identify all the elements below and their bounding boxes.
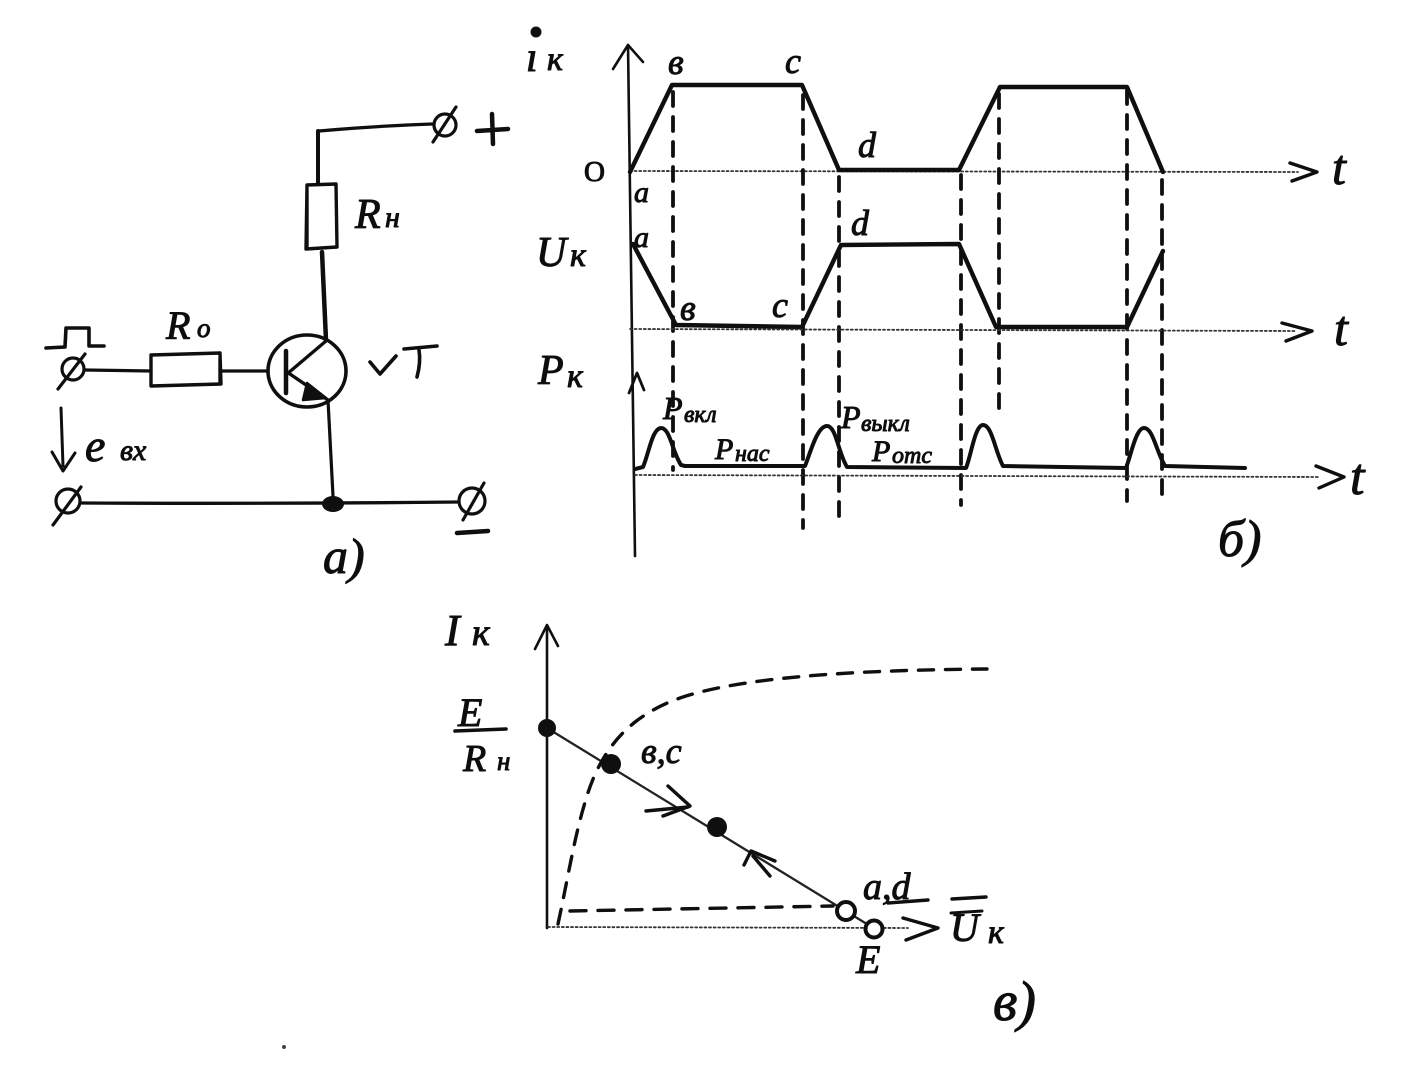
point mid <box>707 817 727 837</box>
svg-text:t: t <box>1332 139 1347 195</box>
small caret on Pk axis <box>629 373 644 393</box>
svg-text:б): б) <box>1218 511 1261 568</box>
load line <box>547 728 875 929</box>
emitter arrowhead <box>303 383 326 400</box>
wire: input terminal to Ro <box>85 370 151 371</box>
Uk waveform <box>633 244 1163 327</box>
label VT <box>370 356 396 374</box>
dashed vline b <box>671 92 675 470</box>
label Uk with bar <box>951 911 982 913</box>
svg-text:в: в <box>680 288 696 328</box>
transistor base bar <box>284 351 289 393</box>
svg-text:нас: нас <box>735 441 770 467</box>
svg-text:н: н <box>385 201 400 234</box>
svg-text:Е: Е <box>457 690 482 735</box>
svg-text:Е: Е <box>855 937 880 982</box>
dashed vline g2 <box>1125 90 1129 501</box>
svg-text:d: d <box>851 203 870 243</box>
wire: rail down to Rn <box>316 131 320 184</box>
svg-text:к: к <box>567 358 584 395</box>
diagram y-axis (shared) <box>628 45 635 556</box>
resistor Ro <box>151 353 221 386</box>
svg-text:отс: отс <box>892 443 932 469</box>
transistor VT body <box>268 335 346 407</box>
svg-text:к: к <box>570 237 587 274</box>
dashed vline f2 <box>997 94 1001 412</box>
svg-text:в: в <box>668 42 684 82</box>
terminal: bottom right <box>459 488 485 514</box>
stray dot <box>282 1045 286 1049</box>
terminal +V <box>434 114 456 136</box>
t axis 3 <box>635 475 1320 477</box>
svg-text:e: e <box>85 420 105 471</box>
t axis 2 <box>630 329 1295 331</box>
svg-text:R: R <box>165 303 190 348</box>
svg-text:Р: Р <box>714 433 733 466</box>
svg-text:ı: ı <box>526 35 538 81</box>
point E open <box>866 921 883 938</box>
transistor collector stroke <box>287 341 326 374</box>
dashed vline c <box>801 95 805 528</box>
svg-text:d: d <box>858 125 877 165</box>
label minus <box>457 531 488 533</box>
wire: bottom rail <box>82 502 458 503</box>
wire: Ro to base <box>221 369 268 372</box>
arrow on load line up-left <box>753 856 770 876</box>
svg-text:R: R <box>462 738 486 780</box>
svg-text:вх: вх <box>120 434 147 467</box>
dashed vline d <box>837 177 841 525</box>
svg-text:R: R <box>354 192 381 238</box>
svg-text:к: к <box>472 612 491 654</box>
Pk waveform <box>635 425 1245 469</box>
label + polarity <box>477 114 508 144</box>
svg-text:Р: Р <box>840 399 861 435</box>
svg-text:а: а <box>634 176 649 209</box>
wire: +V top rail <box>319 124 432 131</box>
svg-text:P: P <box>537 348 564 394</box>
svg-text:U: U <box>536 230 569 276</box>
point a,d open <box>837 902 855 920</box>
wire: emitter down <box>328 400 333 496</box>
svg-text:с: с <box>785 41 801 81</box>
svg-text:t: t <box>1350 449 1366 506</box>
svg-text:в): в) <box>993 971 1036 1033</box>
svg-text:выкл: выкл <box>861 411 910 437</box>
iK waveform <box>630 85 1163 172</box>
label iK <box>531 27 542 38</box>
arrow e_vx <box>61 408 63 466</box>
dashed vline e2 <box>959 175 963 505</box>
dashed vline h2 <box>1160 180 1164 501</box>
terminal: bottom left <box>56 489 80 513</box>
svg-text:к: к <box>547 41 564 78</box>
svg-text:н: н <box>497 746 510 776</box>
svg-text:t: t <box>1334 300 1349 356</box>
pulse symbol <box>46 328 104 348</box>
svg-text:о: о <box>197 313 211 343</box>
point v,c <box>601 754 621 774</box>
svg-text:вкл: вкл <box>684 402 717 428</box>
terminal: input <box>62 358 84 380</box>
svg-text:Р: Р <box>662 390 683 426</box>
svg-text:I: I <box>444 606 462 655</box>
dashed cutoff level <box>570 906 833 911</box>
svg-text:с: с <box>772 285 788 325</box>
svg-text:а): а) <box>323 528 365 584</box>
graph y-axis Ik <box>546 628 549 928</box>
resistor Rn <box>306 184 337 249</box>
svg-text:Р: Р <box>871 435 890 468</box>
junction dot <box>322 496 344 512</box>
svg-text:к: к <box>988 914 1005 951</box>
dashed characteristic curve <box>558 669 987 924</box>
arrow on load line down-right <box>646 807 688 811</box>
svg-text:О: О <box>584 156 605 188</box>
t axis 1 <box>630 171 1298 172</box>
svg-text:а,d: а,d <box>863 866 912 908</box>
transistor emitter stroke <box>287 372 328 400</box>
svg-text:U: U <box>950 905 982 950</box>
point E/Rn <box>538 719 556 737</box>
wire: Rn to collector <box>322 252 326 340</box>
svg-text:в,с: в,с <box>641 731 682 771</box>
graph x-axis <box>548 927 908 928</box>
